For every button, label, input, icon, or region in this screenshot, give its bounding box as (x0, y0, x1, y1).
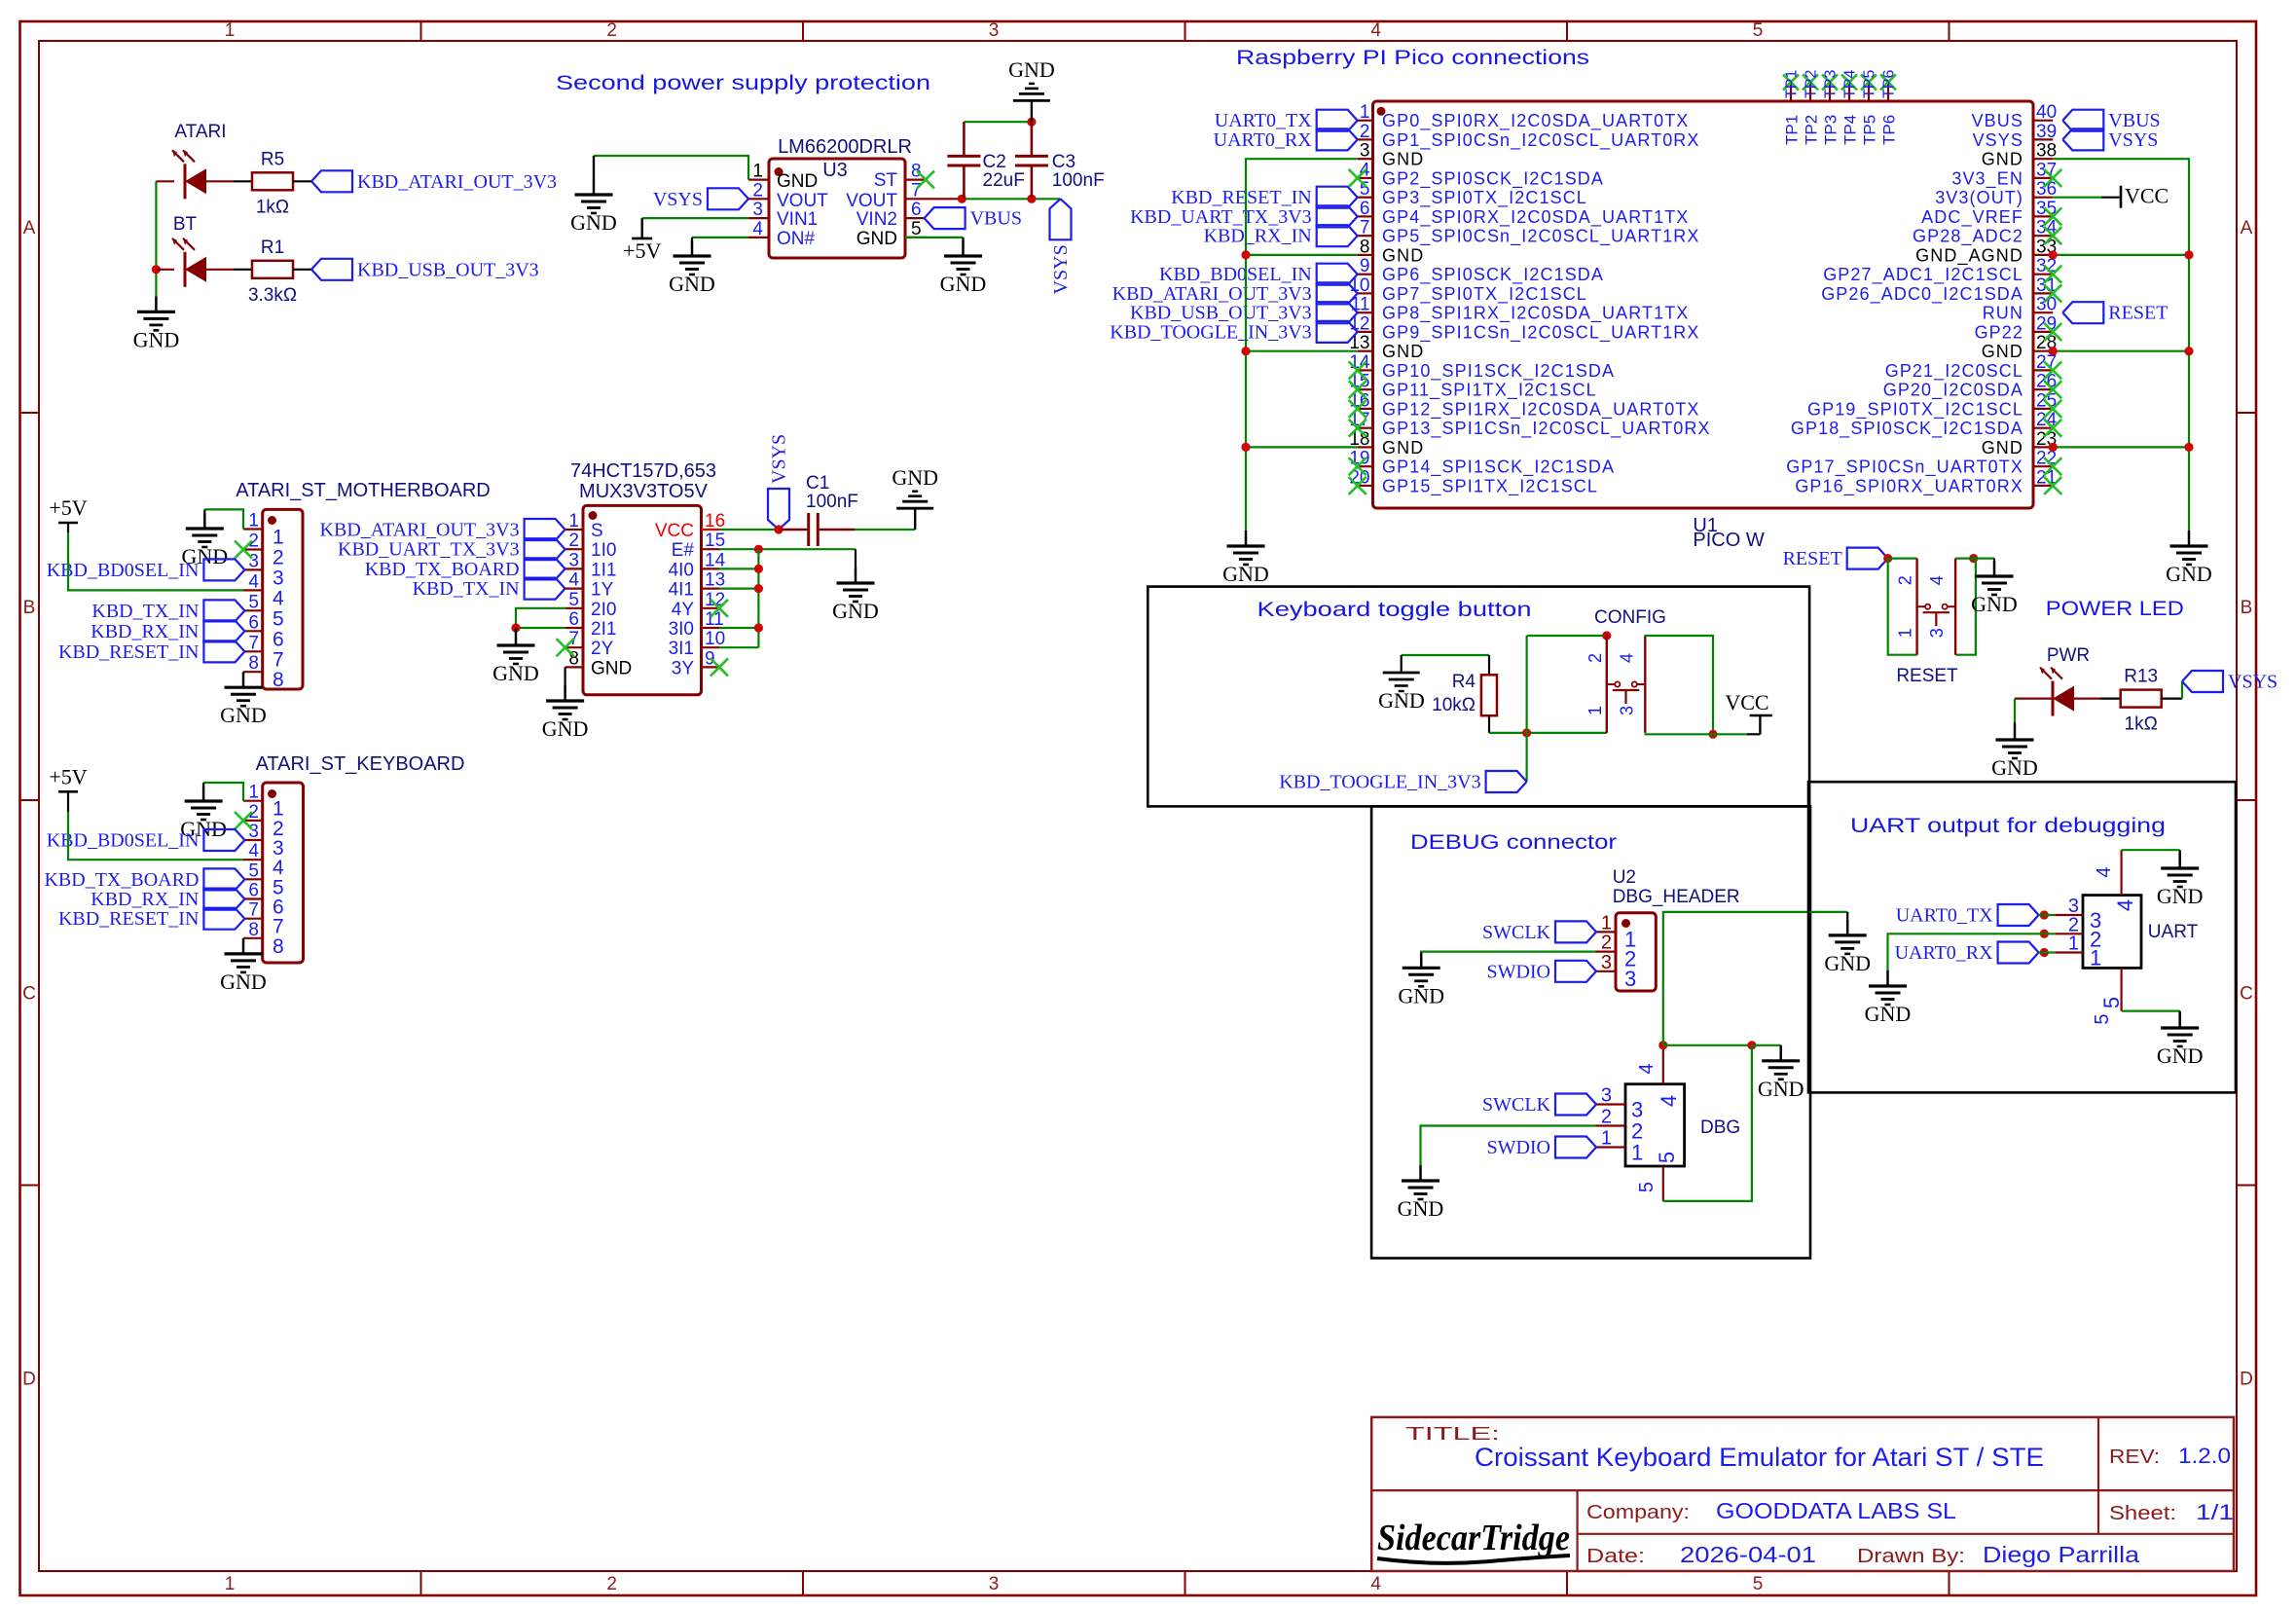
svg-text:KBD_TX_IN: KBD_TX_IN (91, 601, 199, 622)
svg-text:5: 5 (1655, 1152, 1679, 1163)
svg-text:1: 1 (225, 20, 236, 41)
svg-text:7: 7 (273, 648, 284, 671)
svg-text:GND: GND (1382, 342, 1424, 361)
svg-text:GND: GND (492, 661, 539, 685)
svg-text:1: 1 (568, 511, 579, 531)
svg-text:3: 3 (1601, 1085, 1612, 1107)
svg-text:Date:: Date: (1586, 1546, 1645, 1567)
svg-text:ATARI_ST_MOTHERBOARD: ATARI_ST_MOTHERBOARD (236, 480, 491, 501)
svg-text:GND: GND (591, 658, 632, 678)
svg-text:3I0: 3I0 (669, 619, 694, 640)
svg-text:2: 2 (1601, 1107, 1612, 1128)
svg-text:Diego Parrilla: Diego Parrilla (1983, 1542, 2139, 1567)
svg-text:15: 15 (705, 531, 725, 551)
svg-text:GP16_SPI0RX_UART0RX: GP16_SPI0RX_UART0RX (1795, 476, 2023, 496)
svg-text:GND: GND (1378, 688, 1425, 713)
svg-text:CONFIG: CONFIG (1594, 607, 1666, 628)
svg-text:9: 9 (1360, 256, 1370, 276)
svg-text:5: 5 (2092, 1013, 2113, 1024)
svg-text:2: 2 (606, 20, 617, 41)
svg-text:R5: R5 (261, 149, 284, 169)
svg-text:SWDIO: SWDIO (1486, 1137, 1550, 1158)
svg-text:1: 1 (1360, 102, 1370, 123)
svg-text:GND: GND (1382, 245, 1424, 265)
svg-text:3: 3 (1601, 952, 1612, 973)
svg-text:VBUS: VBUS (2108, 110, 2160, 131)
svg-text:ADC_VREF: ADC_VREF (1921, 207, 2023, 228)
svg-text:5: 5 (248, 860, 259, 881)
svg-text:1: 1 (1896, 628, 1915, 638)
svg-text:4: 4 (2113, 899, 2137, 911)
svg-text:C: C (22, 984, 36, 1005)
svg-text:Second power supply protection: Second power supply protection (556, 72, 930, 94)
svg-text:2: 2 (606, 1574, 617, 1594)
svg-text:6: 6 (1360, 199, 1370, 219)
svg-text:7: 7 (248, 900, 259, 921)
svg-text:KBD_RX_IN: KBD_RX_IN (91, 621, 199, 642)
svg-text:1I1: 1I1 (591, 560, 616, 580)
svg-text:UART0_TX: UART0_TX (1896, 905, 1993, 927)
svg-text:6: 6 (273, 628, 284, 650)
svg-text:VIN2: VIN2 (856, 209, 897, 230)
svg-text:KBD_TX_BOARD: KBD_TX_BOARD (365, 559, 520, 580)
svg-text:Raspberry PI Pico connections: Raspberry PI Pico connections (1236, 47, 1589, 69)
svg-text:KBD_RESET_IN: KBD_RESET_IN (58, 641, 199, 663)
svg-text:GND: GND (1382, 438, 1424, 458)
svg-text:2I0: 2I0 (591, 600, 616, 620)
svg-text:GND: GND (570, 210, 617, 235)
svg-text:KBD_RESET_IN: KBD_RESET_IN (1171, 187, 1311, 208)
svg-text:5: 5 (248, 592, 259, 612)
svg-text:TP6: TP6 (1880, 115, 1899, 145)
svg-text:A: A (2241, 218, 2253, 238)
svg-text:GP14_SPI1SCK_I2C1SDA: GP14_SPI1SCK_I2C1SDA (1382, 458, 1615, 478)
svg-text:6: 6 (248, 612, 259, 633)
svg-text:GND: GND (856, 229, 897, 249)
svg-text:RUN: RUN (1983, 304, 2023, 323)
svg-text:9: 9 (705, 648, 715, 669)
svg-text:VSYS: VSYS (769, 434, 790, 484)
svg-text:GND: GND (892, 465, 938, 490)
svg-text:GP1_SPI0CSn_I2C0SCL_UART0RX: GP1_SPI0CSn_I2C0SCL_UART0RX (1382, 130, 1700, 151)
svg-text:KBD_BD0SEL_IN: KBD_BD0SEL_IN (47, 560, 200, 581)
svg-text:SWDIO: SWDIO (1486, 961, 1550, 982)
svg-text:B: B (23, 598, 36, 618)
svg-text:3I1: 3I1 (669, 639, 694, 659)
svg-text:8: 8 (273, 935, 284, 958)
svg-text:KBD_UART_TX_3V3: KBD_UART_TX_3V3 (338, 539, 520, 561)
svg-text:GP3_SPI0TX_I2C1SCL: GP3_SPI0TX_I2C1SCL (1382, 188, 1587, 208)
svg-text:A: A (23, 218, 36, 238)
svg-text:C: C (2240, 984, 2253, 1005)
svg-text:UART0_TX: UART0_TX (1215, 110, 1312, 131)
svg-text:14: 14 (705, 550, 726, 570)
svg-text:1: 1 (752, 162, 763, 182)
svg-text:16: 16 (705, 511, 725, 531)
svg-text:Keyboard toggle button: Keyboard toggle button (1257, 599, 1532, 621)
svg-text:UART0_RX: UART0_RX (1214, 129, 1313, 151)
svg-text:R1: R1 (261, 238, 284, 258)
svg-text:5: 5 (2099, 997, 2124, 1008)
svg-text:5: 5 (1753, 1574, 1764, 1594)
svg-text:+5V: +5V (623, 238, 661, 263)
svg-text:4: 4 (1657, 1095, 1681, 1107)
svg-text:GND: GND (133, 327, 180, 351)
svg-text:8: 8 (248, 920, 259, 940)
svg-text:PWR: PWR (2047, 645, 2090, 666)
svg-text:GP12_SPI1RX_I2C0SDA_UART0TX: GP12_SPI1RX_I2C0SDA_UART0TX (1382, 399, 1700, 420)
svg-text:GP18_SPI0SCK_I2C1SDA: GP18_SPI0SCK_I2C1SDA (1791, 419, 2023, 439)
svg-text:TP1: TP1 (1783, 115, 1802, 145)
svg-text:KBD_BD0SEL_IN: KBD_BD0SEL_IN (47, 830, 200, 852)
svg-text:VSYS: VSYS (1973, 130, 2023, 150)
svg-text:TP3: TP3 (1823, 70, 1840, 98)
svg-text:GND: GND (1991, 755, 2038, 780)
svg-text:VOUT: VOUT (777, 191, 828, 211)
svg-text:VSYS: VSYS (1050, 244, 1072, 294)
svg-text:UART output for debugging: UART output for debugging (1850, 815, 2166, 837)
svg-text:KBD_TX_IN: KBD_TX_IN (413, 578, 520, 600)
svg-text:TP2: TP2 (1804, 70, 1820, 98)
svg-text:5: 5 (1636, 1182, 1658, 1192)
svg-text:1: 1 (1601, 912, 1612, 934)
svg-text:74HCT157D,653: 74HCT157D,653 (570, 460, 716, 482)
svg-text:KBD_ATARI_OUT_3V3: KBD_ATARI_OUT_3V3 (357, 171, 557, 193)
svg-text:6: 6 (248, 881, 259, 901)
svg-text:GND: GND (777, 171, 818, 192)
svg-text:GP5_SPI0CSn_I2C0SCL_UART1RX: GP5_SPI0CSn_I2C0SCL_UART1RX (1382, 227, 1700, 247)
svg-text:SidecarTridge: SidecarTridge (1377, 1518, 1570, 1558)
svg-text:GP21_I2C0SCL: GP21_I2C0SCL (1885, 361, 2023, 382)
svg-text:VCC: VCC (655, 521, 694, 541)
svg-text:2Y: 2Y (591, 639, 614, 659)
svg-text:GND: GND (1758, 1077, 1804, 1101)
svg-text:TP3: TP3 (1822, 115, 1840, 145)
svg-text:1: 1 (248, 783, 259, 803)
svg-text:VCC: VCC (2125, 184, 2168, 208)
svg-text:8: 8 (1360, 237, 1370, 257)
svg-text:GND: GND (1982, 438, 2023, 458)
svg-text:3: 3 (248, 822, 259, 842)
svg-text:KBD_ATARI_OUT_3V3: KBD_ATARI_OUT_3V3 (1112, 283, 1312, 305)
svg-text:GP22: GP22 (1975, 322, 2023, 342)
svg-text:1: 1 (2090, 946, 2101, 970)
svg-text:GOODDATA LABS SL: GOODDATA LABS SL (1716, 1498, 1956, 1523)
svg-text:RESET: RESET (2108, 303, 2168, 324)
svg-text:Company:: Company: (1586, 1502, 1690, 1523)
svg-text:Sheet:: Sheet: (2109, 1503, 2176, 1524)
svg-text:TP5: TP5 (1861, 115, 1879, 145)
svg-text:BT: BT (173, 214, 198, 235)
svg-text:GP10_SPI1SCK_I2C1SDA: GP10_SPI1SCK_I2C1SDA (1382, 361, 1615, 382)
svg-text:2: 2 (1601, 933, 1612, 954)
svg-text:TP5: TP5 (1862, 70, 1878, 98)
svg-text:1: 1 (248, 511, 259, 531)
svg-text:VBUS: VBUS (1972, 111, 2023, 130)
svg-text:SWCLK: SWCLK (1482, 922, 1551, 943)
svg-text:PICO W: PICO W (1693, 530, 1764, 551)
svg-text:4: 4 (1617, 653, 1636, 663)
svg-text:1: 1 (2068, 934, 2079, 955)
svg-text:GP19_SPI0TX_I2C1SCL: GP19_SPI0TX_I2C1SCL (1807, 399, 2023, 420)
svg-text:2: 2 (752, 180, 763, 201)
svg-text:KBD_RX_IN: KBD_RX_IN (1204, 226, 1312, 247)
svg-text:4: 4 (248, 571, 259, 592)
svg-text:KBD_BD0SEL_IN: KBD_BD0SEL_IN (1159, 264, 1312, 285)
svg-text:GP28_ADC2: GP28_ADC2 (1913, 227, 2023, 247)
svg-text:GND: GND (1008, 57, 1055, 82)
svg-text:TP6: TP6 (1881, 70, 1898, 98)
svg-text:TP2: TP2 (1803, 115, 1821, 145)
svg-text:U2: U2 (1613, 867, 1636, 888)
svg-text:3: 3 (248, 551, 259, 571)
svg-text:GND: GND (1865, 1002, 1912, 1026)
svg-text:GND: GND (669, 272, 715, 296)
svg-text:GND: GND (1824, 951, 1871, 975)
svg-text:GND: GND (1982, 150, 2023, 169)
svg-text:Drawn By:: Drawn By: (1857, 1546, 1965, 1567)
svg-text:GND: GND (2157, 1043, 2204, 1068)
svg-text:C3: C3 (1052, 152, 1075, 172)
svg-text:100nF: 100nF (1052, 170, 1105, 191)
svg-text:1kΩ: 1kΩ (2125, 714, 2158, 735)
svg-text:KBD_RESET_IN: KBD_RESET_IN (58, 908, 199, 930)
svg-text:3V3(OUT): 3V3(OUT) (1935, 188, 2023, 207)
svg-text:ATARI: ATARI (174, 122, 226, 142)
svg-text:1kΩ: 1kΩ (256, 197, 289, 217)
svg-text:GND: GND (1398, 983, 1444, 1007)
svg-text:GP6_SPI0SCK_I2C1SDA: GP6_SPI0SCK_I2C1SDA (1382, 265, 1604, 285)
svg-text:ST: ST (874, 170, 898, 191)
svg-text:22uF: 22uF (983, 170, 1025, 191)
svg-text:+5V: +5V (49, 764, 87, 788)
svg-text:KBD_USB_OUT_3V3: KBD_USB_OUT_3V3 (357, 259, 539, 280)
svg-text:VBUS: VBUS (970, 208, 1022, 230)
svg-text:40: 40 (2036, 102, 2057, 123)
svg-text:3: 3 (1624, 967, 1636, 991)
svg-text:1: 1 (1585, 706, 1605, 715)
svg-text:VOUT: VOUT (846, 191, 897, 211)
svg-text:3Y: 3Y (672, 658, 695, 678)
svg-text:ATARI_ST_KEYBOARD: ATARI_ST_KEYBOARD (256, 753, 465, 775)
svg-text:D: D (2240, 1370, 2253, 1390)
svg-text:ON#: ON# (777, 229, 816, 249)
svg-text:3: 3 (1360, 141, 1370, 162)
svg-text:4: 4 (1370, 20, 1381, 41)
svg-text:DBG_HEADER: DBG_HEADER (1613, 887, 1740, 907)
svg-text:LM66200DRLR: LM66200DRLR (778, 136, 912, 158)
svg-text:GP4_SPI0RX_I2C0SDA_UART1TX: GP4_SPI0RX_I2C0SDA_UART1TX (1382, 207, 1689, 228)
svg-text:R13: R13 (2124, 667, 2158, 687)
svg-text:GP17_SPI0CSn_UART0TX: GP17_SPI0CSn_UART0TX (1786, 458, 2023, 478)
svg-text:GND_AGND: GND_AGND (1915, 245, 2023, 266)
svg-text:1: 1 (1601, 1128, 1612, 1150)
svg-text:TP4: TP4 (1842, 70, 1859, 98)
svg-text:KBD_TX_BOARD: KBD_TX_BOARD (44, 869, 199, 891)
svg-text:GND: GND (220, 970, 267, 994)
svg-text:GP2_SPI0SCK_I2C1SDA: GP2_SPI0SCK_I2C1SDA (1382, 168, 1604, 189)
svg-text:VSYS: VSYS (2228, 672, 2278, 693)
svg-text:1.2.0: 1.2.0 (2178, 1444, 2231, 1468)
svg-text:39: 39 (2036, 122, 2057, 142)
svg-text:C1: C1 (806, 473, 829, 494)
svg-text:3.3kΩ: 3.3kΩ (248, 285, 297, 306)
svg-text:3: 3 (989, 1574, 1000, 1594)
svg-text:GND: GND (1982, 342, 2023, 361)
svg-text:UART0_RX: UART0_RX (1895, 942, 1994, 964)
svg-text:C2: C2 (983, 152, 1006, 172)
svg-text:13: 13 (705, 570, 725, 591)
svg-text:3: 3 (568, 550, 579, 570)
svg-text:4I1: 4I1 (669, 580, 694, 601)
svg-text:KBD_RX_IN: KBD_RX_IN (91, 889, 199, 910)
svg-text:RESET: RESET (1783, 548, 1842, 569)
svg-text:R4: R4 (1452, 672, 1476, 692)
svg-text:4: 4 (273, 587, 284, 609)
svg-text:2: 2 (273, 547, 284, 569)
svg-text:7: 7 (248, 633, 259, 653)
svg-text:2: 2 (1585, 653, 1605, 663)
svg-text:KBD_ATARI_OUT_3V3: KBD_ATARI_OUT_3V3 (320, 520, 520, 541)
svg-text:2026-04-01: 2026-04-01 (1680, 1542, 1816, 1567)
svg-text:6: 6 (911, 200, 922, 220)
svg-text:Croissant Keyboard Emulator fo: Croissant Keyboard Emulator for Atari ST… (1475, 1443, 2044, 1472)
svg-text:5: 5 (273, 607, 284, 630)
svg-text:POWER LED: POWER LED (2046, 598, 2184, 620)
svg-text:3V3_EN: 3V3_EN (1951, 168, 2023, 189)
svg-text:VCC: VCC (1725, 690, 1768, 714)
svg-text:1: 1 (1631, 1141, 1643, 1165)
svg-text:4: 4 (248, 841, 259, 861)
svg-text:4: 4 (752, 219, 763, 239)
svg-text:GND: GND (1398, 1196, 1444, 1221)
svg-text:GND: GND (1222, 562, 1269, 586)
svg-text:MUX3V3TO5V: MUX3V3TO5V (579, 481, 709, 502)
svg-text:8: 8 (248, 653, 259, 674)
svg-text:UART: UART (2148, 922, 2199, 942)
svg-text:100nF: 100nF (806, 492, 858, 512)
svg-text:3: 3 (1927, 628, 1947, 638)
svg-text:2I1: 2I1 (591, 619, 616, 640)
svg-text:4: 4 (2094, 866, 2115, 877)
svg-text:SWCLK: SWCLK (1482, 1094, 1551, 1116)
svg-text:6: 6 (568, 609, 579, 630)
svg-text:GP27_ADC1_I2C1SCL: GP27_ADC1_I2C1SCL (1823, 265, 2023, 285)
svg-text:1: 1 (273, 527, 284, 549)
svg-text:4: 4 (1927, 575, 1947, 585)
svg-text:D: D (22, 1370, 36, 1390)
svg-text:5: 5 (1753, 20, 1764, 41)
svg-text:3: 3 (752, 200, 763, 220)
svg-text:1I0: 1I0 (591, 540, 616, 561)
svg-text:3: 3 (1617, 706, 1636, 715)
svg-text:KBD_TOOGLE_IN_3V3: KBD_TOOGLE_IN_3V3 (1279, 772, 1480, 793)
svg-text:GND: GND (2157, 884, 2204, 908)
svg-text:30: 30 (2036, 295, 2057, 315)
svg-text:GP20_I2C0SDA: GP20_I2C0SDA (1883, 381, 2023, 401)
svg-text:8: 8 (273, 669, 284, 691)
svg-text:3: 3 (989, 20, 1000, 41)
svg-text:5: 5 (911, 219, 922, 239)
svg-text:GP11_SPI1TX_I2C1SCL: GP11_SPI1TX_I2C1SCL (1382, 381, 1597, 401)
svg-text:1Y: 1Y (591, 580, 614, 601)
svg-text:GP0_SPI0RX_I2C0SDA_UART0TX: GP0_SPI0RX_I2C0SDA_UART0TX (1382, 111, 1689, 131)
svg-text:GND: GND (542, 716, 589, 741)
svg-text:KBD_UART_TX_3V3: KBD_UART_TX_3V3 (1130, 206, 1312, 228)
svg-text:B: B (2241, 598, 2253, 618)
svg-text:GND: GND (1971, 592, 2018, 616)
svg-text:GND: GND (832, 599, 879, 623)
svg-text:KBD_USB_OUT_3V3: KBD_USB_OUT_3V3 (1130, 303, 1312, 324)
svg-text:GP13_SPI1CSn_I2C0SCL_UART0RX: GP13_SPI1CSn_I2C0SCL_UART0RX (1382, 419, 1711, 439)
svg-text:7: 7 (911, 180, 922, 201)
svg-text:2: 2 (1360, 122, 1370, 142)
svg-text:8: 8 (911, 162, 922, 182)
svg-text:4: 4 (568, 570, 579, 591)
svg-text:10kΩ: 10kΩ (1432, 695, 1476, 715)
svg-text:GP8_SPI1RX_I2C0SDA_UART1TX: GP8_SPI1RX_I2C0SDA_UART1TX (1382, 304, 1689, 324)
svg-text:S: S (591, 521, 603, 541)
svg-text:+5V: +5V (49, 495, 87, 520)
svg-text:TITLE:: TITLE: (1405, 1424, 1500, 1444)
svg-text:E#: E# (672, 540, 695, 561)
svg-text:VIN1: VIN1 (777, 209, 818, 230)
svg-text:U3: U3 (822, 160, 848, 181)
svg-text:GND: GND (220, 703, 267, 727)
svg-text:TP1: TP1 (1784, 70, 1801, 98)
svg-text:GND: GND (1382, 150, 1424, 169)
svg-text:3: 3 (273, 567, 284, 589)
svg-text:GP7_SPI0TX_I2C1SCL: GP7_SPI0TX_I2C1SCL (1382, 284, 1587, 305)
svg-text:1/1: 1/1 (2196, 1500, 2234, 1524)
svg-text:7: 7 (1360, 218, 1370, 238)
svg-text:4: 4 (1370, 1574, 1381, 1594)
svg-text:5: 5 (568, 590, 579, 610)
svg-text:1: 1 (225, 1574, 236, 1594)
svg-text:GND: GND (2166, 562, 2212, 586)
svg-text:DBG: DBG (1700, 1117, 1740, 1138)
svg-text:GP26_ADC0_I2C1SDA: GP26_ADC0_I2C1SDA (1821, 284, 2023, 305)
svg-text:GP15_SPI1TX_I2C1SCL: GP15_SPI1TX_I2C1SCL (1382, 476, 1598, 496)
svg-text:2: 2 (1896, 575, 1915, 585)
svg-text:4: 4 (1636, 1063, 1658, 1074)
svg-text:GND: GND (940, 272, 987, 296)
svg-text:GP9_SPI1CSn_I2C0SCL_UART1RX: GP9_SPI1CSn_I2C0SCL_UART1RX (1382, 322, 1700, 343)
svg-text:4Y: 4Y (672, 600, 695, 620)
svg-text:RESET: RESET (1896, 666, 1958, 686)
svg-text:VSYS: VSYS (2108, 129, 2158, 151)
svg-text:4I0: 4I0 (669, 560, 694, 580)
svg-text:TP4: TP4 (1841, 115, 1860, 145)
svg-text:10: 10 (705, 629, 725, 649)
svg-text:KBD_TOOGLE_IN_3V3: KBD_TOOGLE_IN_3V3 (1110, 321, 1311, 343)
svg-text:2: 2 (568, 531, 579, 551)
svg-text:VSYS: VSYS (653, 189, 703, 210)
svg-text:REV:: REV: (2109, 1446, 2160, 1468)
svg-text:DEBUG connector: DEBUG connector (1410, 831, 1617, 854)
